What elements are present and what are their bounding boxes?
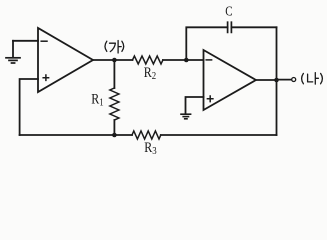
wire output node to terminal (나) — [277, 79, 292, 81]
resistor R2 — [133, 56, 163, 64]
label node (가) — [105, 41, 124, 54]
resistor R3 — [132, 131, 161, 139]
wire U2 output — [256, 79, 277, 81]
svg-text:C: C — [225, 3, 232, 18]
ground (at U2 plus input) — [181, 114, 191, 119]
wire U1 output to node A — [93, 59, 133, 61]
label R3 — [144, 139, 156, 158]
node B junction dot (U2 inverting input / C feedback) — [184, 58, 189, 63]
label R1 — [91, 90, 103, 109]
ground (left, at U1 minus input) — [6, 41, 20, 63]
wire node A down to R1 — [113, 60, 115, 88]
wire bottom feedback net — [20, 134, 132, 136]
output node junction dot — [274, 78, 279, 83]
node A (가) junction dot — [112, 58, 117, 63]
wire right vertical (C feedback + R3 feedback to output node) — [276, 27, 278, 135]
label R2 — [144, 64, 156, 83]
label C — [225, 3, 232, 18]
wire R2 to U2 minus input — [163, 59, 204, 61]
wire R1 to bottom net — [113, 120, 115, 135]
resistor R1 — [110, 88, 119, 120]
wire R3 to output vertical — [161, 134, 277, 136]
wire capacitor to output vertical — [231, 26, 276, 28]
wire U1 plus input (from bottom feedback net) — [20, 79, 38, 135]
op-amp U2 — [204, 50, 257, 110]
op-amp U1 — [38, 28, 93, 92]
terminal circle (나) — [292, 78, 296, 82]
wire U1 minus input — [13, 40, 38, 42]
capacitor C plates — [228, 22, 232, 32]
wire node B up to capacitor branch — [186, 27, 227, 60]
wire U2 plus input to ground — [186, 97, 204, 114]
junction dot R1 / bottom net — [112, 133, 117, 138]
label node (나) — [302, 73, 323, 85]
